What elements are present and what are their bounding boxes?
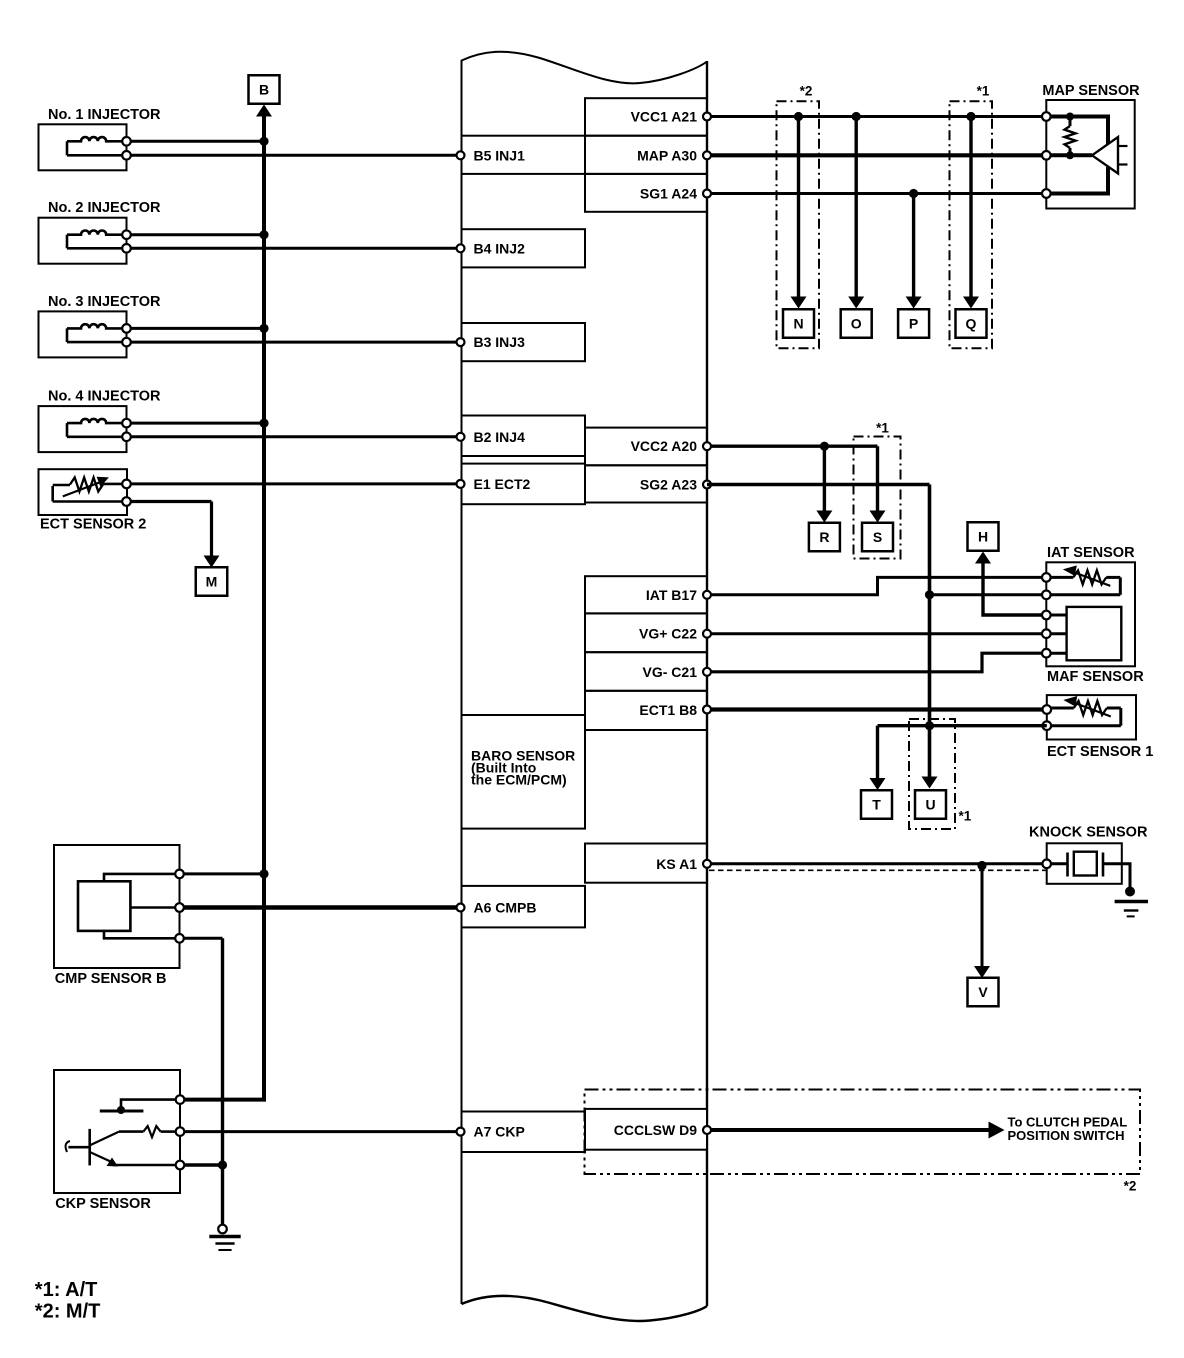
- svg-text:VCC1 A21: VCC1 A21: [631, 108, 698, 124]
- svg-text:E1 ECT2: E1 ECT2: [474, 476, 531, 492]
- dashed box *2 around connector N: [777, 101, 820, 348]
- junction dot VCC1 / Q: [966, 112, 975, 121]
- svg-text:O: O: [851, 316, 862, 332]
- pin circle MAP A30: [703, 151, 711, 159]
- ground symbol below CKP: [218, 1225, 227, 1234]
- pin circle VCC2 A20: [703, 442, 711, 450]
- CMP SENSOR B terminal 2: [175, 903, 184, 912]
- wire drop to connector S: [876, 446, 879, 511]
- wire CCCLSW D9 to clutch pedal position switch: [707, 1128, 989, 1132]
- wire injector L4 terminal2 to pin B2 INJ4: [131, 435, 462, 438]
- ECT SENSOR 1 terminal 2: [1043, 721, 1052, 730]
- injector L2 terminal 2: [122, 244, 131, 253]
- pin box E1 ECT2: [462, 464, 586, 505]
- MAP SENSOR terminal 3: [1042, 189, 1051, 198]
- svg-text:MAF SENSOR: MAF SENSOR: [1047, 669, 1144, 685]
- wire bus to CKP terminal 1: [180, 1098, 266, 1102]
- wire injector L3 terminal1 to bus: [131, 327, 264, 330]
- junction dot bus / injector L1: [259, 137, 268, 146]
- IAT SENSOR thermistor: [1046, 576, 1073, 579]
- wire injector L2 terminal1 to bus: [131, 233, 264, 236]
- pin circle B2 INJ4: [457, 433, 465, 441]
- svg-text:CCCLSW D9: CCCLSW D9: [614, 1122, 697, 1138]
- svg-text:*2: *2: [1124, 1179, 1137, 1194]
- svg-text:SG1 A24: SG1 A24: [640, 185, 697, 201]
- wire CMP terminal1 to bus: [184, 872, 264, 875]
- svg-text:*1: *1: [977, 84, 990, 99]
- pin box KS A1: [585, 844, 707, 883]
- pin box B3 INJ3: [462, 323, 586, 361]
- dashed box *1 around connector Q: [950, 101, 993, 348]
- junction dot KS / V: [977, 861, 986, 870]
- MAP SENSOR internal resistor: [1066, 113, 1074, 121]
- wire IAT B17 to IAT sensor terminal 1: [707, 577, 1046, 594]
- wire injector L2 terminal2 to pin B4 INJ2: [131, 247, 462, 250]
- svg-text:P: P: [909, 316, 918, 332]
- pin box A6 CMPB: [462, 886, 586, 928]
- connector O: [841, 309, 872, 338]
- wire drop to connector V: [981, 866, 984, 967]
- svg-text:B5 INJ1: B5 INJ1: [474, 147, 526, 163]
- pin box SG1 A24: [585, 174, 707, 212]
- injector L3 box: [39, 311, 127, 357]
- MAP SENSOR ground wire: [1050, 167, 1108, 194]
- connector B: [249, 75, 280, 104]
- wire ECT sensor 1 terminal 2 to T and U: [878, 724, 1047, 727]
- pin box B2 INJ4: [462, 416, 586, 457]
- wire SG2 A23 horizontal: [707, 483, 930, 487]
- MAP SENSOR box: [1046, 100, 1134, 209]
- CKP SENSOR pickup element: [143, 1126, 160, 1137]
- svg-text:ECT SENSOR 2: ECT SENSOR 2: [40, 517, 146, 533]
- svg-text:POSITION SWITCH: POSITION SWITCH: [1008, 1128, 1125, 1143]
- svg-text:No. 1 INJECTOR: No. 1 INJECTOR: [48, 107, 161, 123]
- wire VG+ C22 to MAF sensor: [707, 632, 1046, 635]
- connector P: [898, 309, 929, 338]
- MAP SENSOR terminal 1: [1042, 112, 1051, 121]
- pin circle ECT1 B8: [703, 706, 711, 714]
- junction dot bus / CMP terminal1: [259, 869, 268, 878]
- svg-text:CKP SENSOR: CKP SENSOR: [55, 1196, 151, 1212]
- wire SG2 branch to IAT sensor terminal 2: [930, 593, 1047, 596]
- wire ECT SENSOR 2 terminal2 to connector M: [131, 500, 212, 503]
- connector R: [809, 523, 840, 552]
- pin box MAP A30: [585, 136, 707, 174]
- junction dot VCC1 / N: [794, 112, 803, 121]
- ECT SENSOR 1 thermistor: [1047, 707, 1074, 710]
- svg-text:*1: *1: [959, 809, 972, 824]
- pin circle A7 CKP: [457, 1128, 465, 1136]
- KNOCK SENSOR terminal: [1042, 860, 1051, 869]
- CKP SENSOR terminal 1: [176, 1095, 185, 1104]
- svg-text:*1: *1: [876, 421, 889, 436]
- svg-text:No. 4 INJECTOR: No. 4 INJECTOR: [48, 389, 161, 405]
- pin circle A6 CMPB: [457, 904, 465, 912]
- ground symbol at knock sensor: [1125, 887, 1135, 897]
- svg-text:H: H: [978, 529, 988, 545]
- wire KS A1 to knock sensor: [707, 862, 1047, 865]
- MAP SENSOR signal wire: [1050, 153, 1092, 157]
- connector U: [915, 790, 946, 819]
- wire injector L3 terminal2 to pin B3 INJ3: [131, 341, 462, 344]
- connector N: [783, 309, 814, 338]
- injector L3 terminal 2: [122, 338, 131, 347]
- ECM/PCM left edge: [461, 60, 463, 1304]
- svg-text:S: S: [873, 529, 882, 545]
- svg-text:M: M: [206, 574, 218, 590]
- CMP SENSOR B terminal 1: [175, 870, 184, 879]
- injector L4 coil winding: [67, 419, 122, 423]
- svg-text:B4 INJ2: B4 INJ2: [474, 240, 526, 256]
- ECT SENSOR 2 box: [39, 469, 128, 515]
- wire drop to connector O: [855, 117, 858, 298]
- pin circle VG+ C22: [703, 630, 711, 638]
- ECT SENSOR 2 terminal 1: [122, 480, 131, 489]
- svg-text:*1: A/T: *1: A/T: [35, 1279, 98, 1301]
- svg-text:B3 INJ3: B3 INJ3: [474, 334, 526, 350]
- pin box CCCLSW D9: [585, 1109, 707, 1150]
- svg-text:N: N: [793, 316, 803, 332]
- pin circle E1 ECT2: [457, 480, 465, 488]
- injector L1 terminal 2: [122, 151, 131, 160]
- BARO SENSOR box (built into ECM/PCM): [462, 715, 586, 829]
- pin box VG+ C22: [585, 613, 707, 652]
- svg-text:VCC2 A20: VCC2 A20: [631, 438, 698, 454]
- svg-text:MAP A30: MAP A30: [637, 147, 697, 163]
- wire ECT1 B8 to ECT sensor 1 (thick): [707, 707, 1046, 711]
- svg-text:T: T: [872, 797, 881, 813]
- svg-text:the ECM/PCM): the ECM/PCM): [471, 772, 567, 788]
- wire CMP terminal3 down to CKP ground node: [184, 937, 223, 940]
- injector L1 terminal 1: [122, 137, 131, 146]
- wire CKP terminal2 to pin A7 CKP: [185, 1130, 462, 1133]
- svg-text:ECT1 B8: ECT1 B8: [639, 702, 697, 718]
- connector H: [968, 522, 999, 551]
- ECM/PCM bottom torn edge: [462, 1296, 708, 1321]
- svg-text:ECT SENSOR 1: ECT SENSOR 1: [1047, 744, 1153, 760]
- injector L3 terminal 1: [122, 324, 131, 333]
- wire SG1 A24 to MAP sensor: [707, 192, 1046, 195]
- junction dot SG2 / ECT wire: [925, 721, 934, 730]
- injector L2 terminal 1: [122, 230, 131, 239]
- ECT SENSOR 1 box: [1047, 695, 1136, 739]
- IAT/MAF sensor box: [1046, 562, 1135, 666]
- svg-text:KNOCK SENSOR: KNOCK SENSOR: [1029, 825, 1148, 841]
- injector L4 box: [39, 406, 127, 452]
- pin circle CCCLSW D9: [703, 1126, 711, 1134]
- ECT SENSOR 2 thermistor: [103, 483, 122, 486]
- junction dot bus / injector L4: [259, 419, 268, 428]
- svg-text:IAT B17: IAT B17: [646, 587, 697, 603]
- wire drop to connector N: [797, 117, 800, 298]
- ECM/PCM top torn edge: [462, 52, 708, 84]
- connector B arrow: [256, 105, 272, 117]
- svg-text:Q: Q: [966, 316, 977, 332]
- svg-text:A7 CKP: A7 CKP: [474, 1124, 525, 1140]
- svg-text:VG+ C22: VG+ C22: [639, 626, 697, 642]
- CKP SENSOR terminal 2: [176, 1127, 185, 1136]
- MAP SENSOR amplifier triangle: [1092, 137, 1118, 174]
- dashed box *1 around connector U: [909, 719, 955, 829]
- MAP SENSOR terminal 2: [1042, 151, 1051, 160]
- connector M arrow: [204, 556, 220, 568]
- MAF sensor terminal 2: [1042, 629, 1051, 638]
- IAT sensor terminal 2: [1042, 591, 1051, 600]
- wire drop to connector R: [823, 446, 826, 511]
- pin circle VG- C21: [703, 668, 711, 676]
- wire injector L1 terminal2 to pin B5 INJ1: [131, 154, 462, 157]
- wire VCC1 A21 to MAP sensor: [707, 115, 1046, 118]
- injector L1 box: [39, 124, 127, 170]
- connector Q: [956, 309, 987, 338]
- pin circle IAT B17: [703, 591, 711, 599]
- MAP SENSOR output stubs: [1118, 145, 1128, 147]
- wire drop to connector T: [876, 726, 879, 778]
- injector L2 coil winding: [67, 230, 122, 234]
- svg-text:V: V: [978, 984, 988, 1000]
- junction dot VCC2 / R: [820, 442, 829, 451]
- pin circle VCC1 A21: [703, 113, 711, 121]
- svg-text:No. 3 INJECTOR: No. 3 INJECTOR: [48, 294, 161, 310]
- injector L1 coil winding: [67, 137, 122, 141]
- pin box ECT1 B8: [585, 691, 707, 730]
- pin box IAT B17: [585, 576, 707, 613]
- pin circle SG1 A24: [703, 190, 711, 198]
- wire CKP terminal3 to ground node: [185, 1163, 223, 1166]
- injector L2 box: [39, 218, 127, 264]
- injector L4 terminal 1: [122, 419, 131, 428]
- svg-text:U: U: [925, 797, 935, 813]
- injector L3 coil winding: [67, 324, 122, 328]
- junction dot bus / injector L3: [259, 324, 268, 333]
- wire VG- C21 to MAF sensor: [707, 653, 1046, 672]
- CMP SENSOR B terminal 3: [175, 934, 184, 943]
- wire connector H to MAF power terminal: [983, 563, 1046, 615]
- junction dot bus / injector L2: [259, 230, 268, 239]
- pin box B4 INJ2: [462, 229, 586, 267]
- pin box VCC1 A21: [585, 98, 707, 136]
- pin box A7 CKP: [462, 1112, 586, 1153]
- wire CMP terminal2 to pin A6 CMPB: [184, 905, 462, 909]
- wire drop to connector P: [912, 194, 915, 298]
- connector T: [861, 790, 892, 819]
- wire VCC2 A20 to R and S: [707, 445, 878, 448]
- svg-text:A6 CMPB: A6 CMPB: [474, 900, 537, 916]
- junction dot SG1 / P: [909, 189, 918, 198]
- svg-text:VG- C21: VG- C21: [643, 664, 698, 680]
- junction dot SG2 / IAT sensor terminal 2: [925, 590, 934, 599]
- wire ECT SENSOR 2 to pin E1 ECT2: [131, 482, 462, 485]
- pin circle B5 INJ1: [457, 151, 465, 159]
- svg-text:B2 INJ4: B2 INJ4: [474, 429, 526, 445]
- svg-text:No. 2 INJECTOR: No. 2 INJECTOR: [48, 200, 161, 216]
- ECM/PCM right edge: [706, 61, 708, 1306]
- connector V: [968, 978, 999, 1007]
- pin box SG2 A23: [585, 465, 707, 502]
- wire injector L4 terminal1 to bus: [131, 422, 264, 425]
- CMP SENSOR B inner element: [78, 881, 130, 931]
- connector M: [196, 567, 228, 596]
- injector L4 terminal 2: [122, 433, 131, 442]
- svg-text:SG2 A23: SG2 A23: [640, 477, 697, 493]
- MAF sensor terminal stubs: [1046, 614, 1066, 617]
- MAF sensor terminal 1: [1042, 611, 1051, 620]
- svg-text:B: B: [259, 82, 269, 98]
- svg-text:*2: *2: [800, 84, 813, 99]
- ECT SENSOR 2 terminal 2: [122, 497, 131, 506]
- svg-text:R: R: [819, 529, 829, 545]
- KNOCK SENSOR piezo element: [1051, 862, 1068, 865]
- svg-text:IAT SENSOR: IAT SENSOR: [1047, 545, 1135, 561]
- wire SG2 vertical down to connector U: [928, 485, 932, 777]
- dashed box *1 around connector S: [854, 437, 901, 559]
- MAF sensor terminal 3: [1042, 649, 1051, 658]
- svg-text:CMP SENSOR B: CMP SENSOR B: [55, 971, 167, 987]
- MAP SENSOR supply wire: [1050, 117, 1108, 145]
- pin circle B4 INJ2: [457, 244, 465, 252]
- pin box B5 INJ1: [462, 136, 586, 174]
- wire MAP A30 to MAP sensor (thick): [707, 153, 1046, 157]
- ECT SENSOR 1 terminal 1: [1043, 705, 1052, 714]
- pin box VG- C21: [585, 652, 707, 691]
- CMP SENSOR B box: [54, 845, 180, 968]
- wire drop to connector Q: [969, 117, 972, 298]
- KNOCK SENSOR box: [1047, 843, 1122, 884]
- junction dot VCC1 / O: [852, 112, 861, 121]
- pin circle SG2 A23: [703, 481, 711, 489]
- svg-text:KS A1: KS A1: [656, 856, 697, 872]
- pin circle B3 INJ3: [457, 338, 465, 346]
- wire injector L1 terminal1 to bus: [131, 140, 264, 143]
- MAF SENSOR inner block: [1067, 607, 1122, 660]
- svg-text:MAP SENSOR: MAP SENSOR: [1042, 83, 1140, 99]
- dashed shield line under KS wire: [709, 869, 1046, 871]
- IAT sensor terminal 1: [1042, 573, 1051, 582]
- pin box VCC2 A20: [585, 428, 707, 466]
- dashed box *2 around clutch pedal circuit: [585, 1090, 1141, 1175]
- CKP SENSOR box: [54, 1070, 180, 1193]
- connector S: [862, 523, 893, 552]
- svg-text:*2: M/T: *2: M/T: [35, 1301, 101, 1323]
- connector H arrow: [975, 552, 991, 564]
- junction dot CKP ground node: [218, 1160, 227, 1169]
- pin circle KS A1: [703, 860, 711, 868]
- wire main bus vertical to connector B: [262, 113, 266, 1100]
- CKP SENSOR shield element: [121, 1100, 175, 1107]
- CKP SENSOR terminal 3: [176, 1161, 185, 1170]
